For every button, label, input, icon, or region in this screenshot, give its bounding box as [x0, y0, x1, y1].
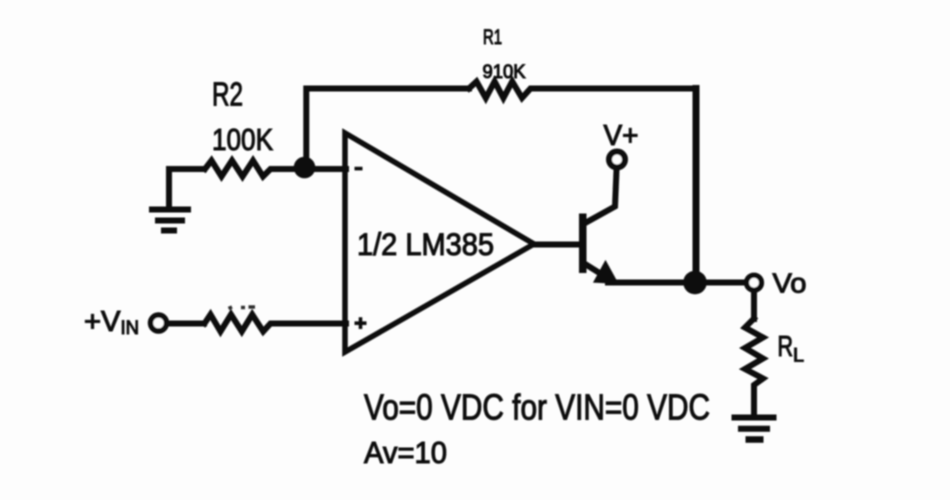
svg-text:Vo=0 VDC for VIN=0 VDC: Vo=0 VDC for VIN=0 VDC: [364, 387, 710, 428]
svg-text:R1: R1: [483, 26, 502, 49]
svg-text:100K: 100K: [212, 122, 273, 157]
svg-text:V+: V+: [604, 120, 639, 152]
svg-text:Vo: Vo: [773, 268, 807, 299]
svg-text:RL: RL: [778, 331, 805, 367]
svg-text:Av=10: Av=10: [364, 435, 447, 470]
svg-text:+VIN: +VIN: [84, 306, 139, 339]
svg-text:R2: R2: [212, 76, 243, 113]
svg-text:1/2 LM385: 1/2 LM385: [357, 226, 494, 262]
svg-text:910K: 910K: [483, 61, 526, 83]
